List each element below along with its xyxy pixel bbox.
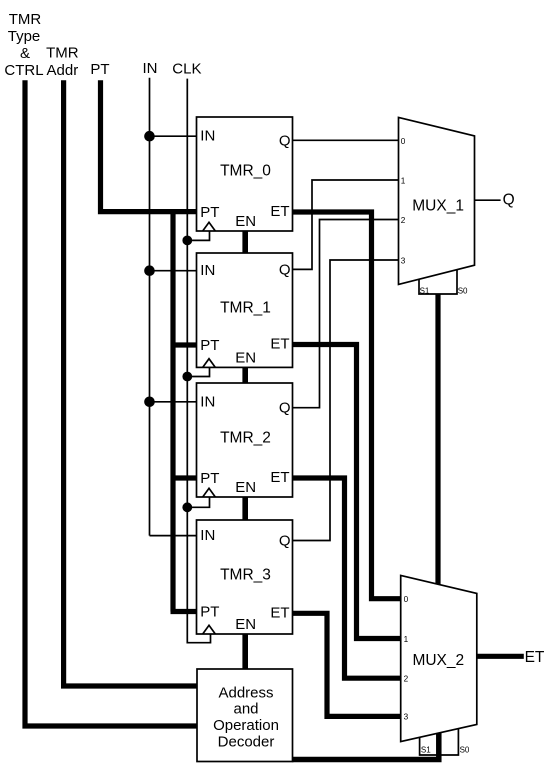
select box S1 S0 of MUX_1 [419,270,457,294]
svg-text:Type: Type [8,28,41,45]
wire TMR Type & CTRL bus (to decoder) [25,80,197,726]
wire EN chain TMR_3 to decoder [242,634,248,669]
svg-text:2: 2 [404,675,409,684]
svg-text:PT: PT [200,604,219,621]
wire IN to TMR_0 [150,135,197,137]
mux MUX_2 [401,575,477,755]
svg-text:Address: Address [218,685,273,702]
svg-text:Q: Q [279,261,291,278]
svg-text:0: 0 [404,595,409,604]
svg-text:PT: PT [90,61,109,78]
svg-text:3: 3 [404,713,409,722]
wire EN chain TMR_2 to TMR_3 [242,497,248,520]
svg-text:Q: Q [279,132,291,149]
wire PT branch to TMR_3 [171,609,198,614]
junction dot CLK/TMR_0 [182,236,192,246]
decoder Address and Operation Decoder [197,669,293,762]
svg-text:EN: EN [235,349,256,366]
select box S1 S0 of MUX_2 [420,729,459,755]
mux MUX_1 [399,117,475,295]
junction dot CLK/TMR_2 [182,502,192,512]
svg-text:Decoder: Decoder [218,733,275,750]
wire PT branch column [170,212,175,612]
svg-text:CTRL: CTRL [4,62,43,79]
svg-text:IN: IN [200,128,215,145]
node TMR Type & CTRL label [4,11,43,79]
svg-text:TMR: TMR [9,11,42,28]
wire TMR Addr bus (to decoder) [64,80,197,686]
junction dot IN/TMR_1 [144,265,155,276]
wire IN to TMR_3 [150,535,197,537]
svg-text:TMR_0: TMR_0 [220,163,271,180]
svg-text:MUX_1: MUX_1 [412,198,464,215]
wire CLK to TMR_1 clock pin [187,367,209,376]
svg-text:and: and [233,701,258,718]
svg-text:IN: IN [143,60,158,77]
junction dot IN/TMR_0 [144,131,155,142]
wire ET of TMR_3 to MUX_2 input 3 [293,613,402,716]
wire PT branch to TMR_2 [173,475,197,480]
svg-text:TMR: TMR [46,44,79,61]
svg-text:1: 1 [401,176,406,185]
wire Q of TMR_1 to MUX_1 input 1 [293,180,399,269]
svg-text:Q: Q [279,400,291,417]
svg-text:PT: PT [200,337,219,354]
svg-text:EN: EN [235,213,256,230]
svg-text:IN: IN [200,527,215,544]
svg-text:S1: S1 [420,286,430,295]
wire MUX_1 output Q [475,199,501,201]
svg-text:3: 3 [401,256,406,265]
wire Q of TMR_2 to MUX_1 input 2 [293,220,399,408]
svg-text:IN: IN [200,393,215,410]
svg-text:ET: ET [270,469,289,486]
svg-text:ET: ET [270,203,289,220]
svg-text:S0: S0 [460,745,470,754]
junction dot IN/TMR_2 [144,397,155,408]
svg-text:CLK: CLK [172,61,201,78]
svg-text:2: 2 [401,216,406,225]
wire IN to TMR_1 [150,270,197,272]
svg-text:TMR_2: TMR_2 [220,430,271,447]
svg-text:TMR_1: TMR_1 [220,300,271,317]
svg-text:EN: EN [235,479,256,496]
timer TMR_3 [197,520,293,634]
wire IN column [149,78,151,536]
svg-text:ET: ET [270,604,289,621]
svg-text:S0: S0 [458,286,468,295]
svg-text:S1: S1 [421,745,431,754]
wire ET of TMR_2 to MUX_2 input 2 [293,478,402,678]
svg-text:&: & [20,45,30,62]
wire PT branch to TMR_1 [173,342,197,347]
svg-text:Q: Q [503,191,515,208]
svg-text:ET: ET [270,336,289,353]
svg-text:1: 1 [404,635,409,644]
svg-text:PT: PT [200,204,219,221]
svg-text:IN: IN [200,262,215,279]
node TMR Addr label [46,44,79,79]
wire ET of TMR_1 to MUX_2 input 1 [293,345,402,639]
junction dot CLK/TMR_1 [182,372,192,382]
wire MUX_1 select riser [435,294,440,584]
svg-text:EN: EN [235,616,256,633]
svg-text:ET: ET [525,649,545,666]
wire Q of TMR_3 to MUX_1 input 3 [293,260,399,541]
svg-text:MUX_2: MUX_2 [412,652,464,669]
svg-text:0: 0 [401,137,406,146]
svg-text:PT: PT [200,470,219,487]
wire Q of TMR_0 to MUX_1 input 0 [293,139,399,141]
wire EN chain TMR_0 to TMR_1 [242,231,248,253]
wire CLK to TMR_0 clock pin [187,231,209,240]
timer TMR_0 [197,117,293,231]
timer TMR_2 [197,383,293,497]
wire EN chain TMR_1 to TMR_2 [242,367,248,383]
wire PT bus into TMR_0 PT [101,80,198,211]
svg-text:Addr: Addr [47,62,79,79]
wire ET of TMR_0 to MUX_2 input 0 [293,212,402,599]
wire CLK to TMR_2 clock pin [187,497,209,507]
wire CLK column [187,79,210,643]
wire decoder select to MUX_2 [293,733,439,760]
wire IN to TMR_2 [150,401,197,403]
wire MUX_2 output ET [477,654,524,659]
svg-text:Operation: Operation [213,717,279,734]
svg-text:Q: Q [279,533,291,550]
timer TMR_1 [197,253,293,367]
svg-text:TMR_3: TMR_3 [220,567,271,584]
